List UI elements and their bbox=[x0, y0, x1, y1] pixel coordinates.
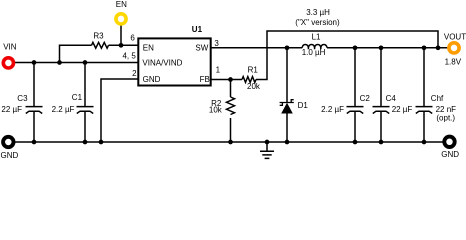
wire D1 anode to ground rail bbox=[286, 114, 288, 143]
junction C1 on VIN row bbox=[83, 60, 88, 65]
diode D1 triangle bbox=[281, 103, 293, 114]
svg-text:C4: C4 bbox=[386, 94, 397, 103]
junction R2 on ground rail bbox=[228, 140, 233, 145]
svg-text:2: 2 bbox=[132, 69, 137, 78]
svg-text:22 µF: 22 µF bbox=[1, 105, 22, 114]
junction D1 on ground rail bbox=[285, 140, 290, 145]
junction R1/R2 on FB row bbox=[228, 77, 233, 82]
svg-text:10k: 10k bbox=[209, 106, 223, 115]
svg-text:EN: EN bbox=[143, 44, 154, 53]
junction earth symbol on ground rail bbox=[265, 140, 270, 145]
wire C4 drop from output row bbox=[380, 48, 382, 107]
svg-text:R1: R1 bbox=[248, 65, 259, 74]
capacitor C2 plates bbox=[347, 107, 364, 114]
wire R3 right lead to EN pin bbox=[109, 44, 139, 46]
junction Chf on output row bbox=[422, 45, 427, 50]
junction C1 on ground rail bbox=[83, 140, 88, 145]
svg-text:(opt.): (opt.) bbox=[436, 113, 455, 122]
svg-text:("X" version): ("X" version) bbox=[295, 18, 340, 27]
wire Chf drop from output row bbox=[423, 48, 425, 107]
svg-text:1.8V: 1.8V bbox=[445, 57, 462, 66]
svg-text:2.2 µF: 2.2 µF bbox=[321, 105, 344, 114]
svg-text:6: 6 bbox=[130, 34, 135, 43]
wire FB pin row bbox=[211, 79, 242, 81]
inductor L1 bbox=[302, 44, 327, 47]
junction EN drop on EN pin wire bbox=[119, 43, 124, 48]
wire C1 bottom to ground rail bbox=[84, 111, 86, 142]
diode D1 schottky cathode bar bbox=[280, 100, 294, 106]
svg-text:C1: C1 bbox=[72, 93, 83, 102]
terminal VOUT bbox=[449, 43, 459, 53]
svg-text:Chf: Chf bbox=[431, 94, 444, 103]
junction C2 on ground rail bbox=[353, 140, 358, 145]
wire C3 bottom to ground rail bbox=[33, 111, 35, 142]
wire EN terminal drop bbox=[120, 25, 122, 45]
svg-text:1.0 µH: 1.0 µH bbox=[302, 48, 326, 57]
junction C3 on VIN row bbox=[32, 60, 37, 65]
svg-text:GND: GND bbox=[441, 150, 459, 159]
resistor R1 bbox=[242, 77, 256, 83]
wire bottom ground rail bbox=[15, 141, 443, 143]
wire C2 bottom to ground rail bbox=[354, 111, 356, 142]
junction Chf on ground rail bbox=[422, 140, 427, 145]
svg-text:C2: C2 bbox=[360, 94, 371, 103]
wire R3 branch up and to EN pin bbox=[60, 45, 92, 62]
svg-text:22 µF: 22 µF bbox=[392, 105, 413, 114]
wire C1 drop from VIN row bbox=[84, 63, 86, 107]
wire inductor to VOUT terminal bbox=[327, 47, 447, 49]
junction bypass on output row bbox=[436, 45, 441, 50]
svg-text:3: 3 bbox=[214, 39, 219, 48]
svg-text:R3: R3 bbox=[93, 31, 104, 40]
wire GND pin to ground rail bbox=[101, 79, 138, 142]
junction GND pin on ground rail bbox=[99, 140, 104, 145]
svg-text:1: 1 bbox=[216, 66, 221, 75]
resistor R2 bbox=[227, 97, 235, 115]
svg-text:3.3 µH: 3.3 µH bbox=[306, 8, 330, 17]
wire D1 cathode drop bbox=[286, 48, 288, 103]
resistor R3 bbox=[92, 42, 109, 48]
wire SW row to inductor bbox=[211, 47, 302, 49]
svg-text:D1: D1 bbox=[298, 101, 309, 110]
svg-text:VINA/VIND: VINA/VIND bbox=[142, 59, 182, 68]
capacitor C1 plates bbox=[77, 107, 94, 114]
ground earth symbol bbox=[260, 142, 274, 158]
wire C4 bottom to ground rail bbox=[380, 111, 382, 142]
terminal GND right bbox=[444, 137, 454, 147]
junction C3 on ground rail bbox=[32, 140, 37, 145]
wire C3 drop from VIN row bbox=[33, 63, 35, 107]
wire R1 to SW node and 3.3uH bypass line bbox=[256, 31, 438, 80]
terminal EN bbox=[116, 14, 126, 24]
svg-text:VOUT: VOUT bbox=[444, 33, 466, 42]
capacitor Chf plates bbox=[416, 107, 433, 114]
IC U1 body bbox=[138, 38, 210, 85]
junction C2 on output row bbox=[353, 45, 358, 50]
junction C4 on output row bbox=[379, 45, 384, 50]
svg-text:GND: GND bbox=[1, 151, 19, 160]
wire R2 top lead bbox=[230, 80, 232, 98]
capacitor C3 plates bbox=[26, 107, 43, 114]
svg-text:L1: L1 bbox=[312, 33, 321, 42]
svg-text:GND: GND bbox=[143, 75, 161, 84]
svg-text:SW: SW bbox=[195, 44, 208, 53]
svg-text:VIN: VIN bbox=[3, 42, 17, 51]
wire VIN row to VINA/VIND pin bbox=[15, 62, 138, 64]
svg-text:U1: U1 bbox=[192, 25, 203, 34]
svg-text:EN: EN bbox=[116, 0, 127, 9]
capacitor C4 plates bbox=[373, 107, 390, 114]
junction D1 on SW row bbox=[285, 45, 290, 50]
svg-text:20k: 20k bbox=[247, 82, 261, 91]
junction R3 branch on VIN row bbox=[57, 60, 62, 65]
wire Chf bottom to ground rail bbox=[423, 111, 425, 142]
svg-text:4, 5: 4, 5 bbox=[122, 52, 136, 61]
wire C2 drop from output row bbox=[354, 48, 356, 107]
terminal VIN bbox=[3, 58, 13, 68]
svg-text:FB: FB bbox=[200, 75, 210, 84]
svg-text:C3: C3 bbox=[17, 94, 28, 103]
junction C4 on ground rail bbox=[379, 140, 384, 145]
wire R2 bottom lead to ground rail bbox=[230, 118, 232, 142]
svg-text:2.2 µF: 2.2 µF bbox=[52, 105, 75, 114]
inductor L1 cusp ticks bbox=[308, 47, 320, 49]
terminal GND left bbox=[3, 137, 13, 147]
